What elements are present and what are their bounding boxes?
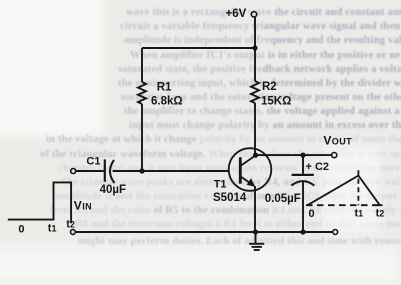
output terminal bottom (333, 230, 338, 235)
wire: top horizontal (142, 47, 255, 49)
transistor T1 body (229, 148, 272, 191)
wire: R1 branch upper (141, 48, 143, 82)
svg-text:0: 0 (309, 208, 315, 220)
svg-text:R2: R2 (262, 81, 277, 93)
svg-text:15KΩ: 15KΩ (261, 96, 291, 108)
svg-text:6.8kΩ: 6.8kΩ (151, 96, 183, 108)
svg-text:C1: C1 (86, 155, 100, 167)
svg-text:VOUT: VOUT (323, 134, 352, 148)
svg-text:t1: t1 (48, 222, 57, 234)
wire: C2 to ground rail (302, 181, 304, 232)
wire: C1 to base (113, 170, 229, 172)
wire: +6V vertical rail (254, 17, 256, 81)
wire: R1 to base node (141, 104, 143, 171)
resistor R1 (138, 82, 146, 104)
svg-text:T1: T1 (214, 179, 227, 191)
capacitor C1 (104, 159, 106, 181)
wire: collector to VOUT (256, 154, 332, 156)
transistor T1 emitter (240, 176, 250, 183)
node: emitter/ground junction (253, 229, 258, 234)
transistor T1 collector (240, 155, 256, 166)
wire: emitter down (254, 186, 256, 232)
svg-text:t2: t2 (66, 219, 75, 231)
output waveform dashed peak marker (357, 170, 359, 205)
wire: bottom ground rail (76, 231, 333, 233)
+6V supply terminal (251, 12, 256, 17)
node: base junction (139, 168, 144, 173)
svg-text:0: 0 (18, 224, 24, 236)
svg-text:+ C2: + C2 (306, 161, 330, 173)
output waveform triangle (308, 176, 380, 206)
node: C2 junction (300, 153, 305, 158)
node: junction top rail (252, 45, 257, 50)
wire: R2 to collector node (254, 103, 256, 155)
input terminal bottom (71, 230, 76, 235)
svg-text:t2: t2 (376, 208, 385, 220)
transistor T1 base bar (239, 157, 242, 183)
svg-text:R1: R1 (157, 82, 172, 94)
node: C2/ground junction (300, 229, 305, 234)
output terminal VOUT (332, 153, 337, 158)
svg-text:40µF: 40µF (100, 184, 126, 196)
resistor R2 (251, 81, 259, 103)
background bleed-through text (0, 0, 104, 136)
svg-text:VIN: VIN (74, 198, 92, 212)
ground (249, 232, 264, 250)
wire: input to C1 (76, 170, 104, 172)
svg-text:S5014: S5014 (213, 192, 247, 204)
svg-text:+6V: +6V (226, 8, 247, 20)
capacitor C2 (302, 155, 304, 174)
output waveform dashed baseline (306, 204, 378, 206)
svg-text:t1: t1 (355, 208, 364, 220)
svg-text:0.05µF: 0.05µF (265, 193, 301, 205)
input terminal top (71, 169, 76, 174)
node: collector junction (253, 153, 258, 158)
input waveform VIN pulse (8, 182, 71, 223)
